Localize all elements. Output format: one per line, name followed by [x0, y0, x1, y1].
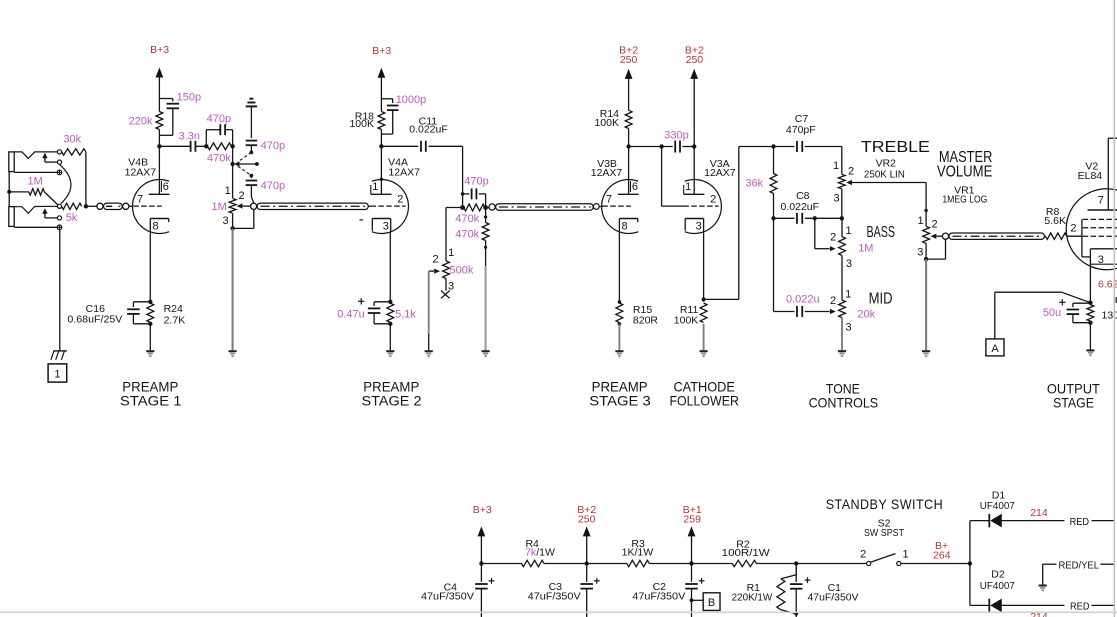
- jack J1 tip contact node: [57, 150, 61, 154]
- wire follower output to tone stack: [704, 298, 739, 300]
- tube V4B 12AX7: [133, 179, 170, 233]
- wire switch to B+ node: [901, 563, 970, 565]
- svg-text:470k: 470k: [455, 213, 479, 225]
- wire C11 down: [462, 146, 464, 207]
- svg-text:5,1k: 5,1k: [395, 308, 416, 320]
- svg-text:TREBLE: TREBLE: [861, 139, 930, 156]
- svg-text:250: 250: [620, 54, 638, 66]
- ground stage1 cathode: [146, 350, 154, 352]
- wire rail 1: [481, 563, 521, 565]
- capacitor 1000p: [381, 98, 392, 100]
- svg-text:47uF/350V: 47uF/350V: [421, 591, 474, 603]
- shielded cable stage1 to stage2: [251, 203, 257, 209]
- resistor 470k series: [208, 143, 232, 150]
- pot 1M wiper arrow: [237, 203, 243, 208]
- svg-text:0.47u: 0.47u: [337, 308, 365, 320]
- svg-text:B+3: B+3: [372, 45, 391, 57]
- capacitor C1 47uF/350V: [795, 564, 797, 583]
- wire RED to edge: [1092, 520, 1115, 522]
- ground VR1: [922, 350, 930, 352]
- wire RED/YEL: [1043, 563, 1057, 565]
- node cathode top: [148, 300, 152, 304]
- svg-text:1000p: 1000p: [396, 94, 427, 106]
- svg-text:CONTROLS: CONTROLS: [809, 395, 879, 411]
- svg-text:SW SPST: SW SPST: [864, 527, 904, 539]
- svg-text:470pF: 470pF: [786, 124, 816, 136]
- svg-text:UF4007: UF4007: [980, 580, 1015, 592]
- node cathode net bottom: [1088, 321, 1092, 325]
- node B+: [968, 561, 972, 565]
- resistor R18 100K: [378, 112, 385, 130]
- switch rotary dashed link lower: [238, 166, 252, 175]
- resistor R1 220K/1W bleeder: [795, 564, 797, 575]
- svg-text:2: 2: [830, 295, 836, 307]
- node R15 top: [618, 300, 622, 304]
- svg-text:1M: 1M: [858, 243, 873, 255]
- svg-text:1: 1: [918, 215, 924, 227]
- resistor 1M (grid leak): [9, 191, 29, 193]
- svg-text:2: 2: [239, 190, 245, 202]
- svg-text:3.3n: 3.3n: [179, 130, 200, 142]
- potentiometer 1M volume: [229, 199, 236, 214]
- wire mid wiper feed: [773, 218, 775, 311]
- capacitor C8 0.022uF: [774, 217, 795, 219]
- capacitor 470p bright lower: [250, 176, 252, 179]
- resistor R11 100K: [700, 303, 707, 323]
- node stage1 plate: [157, 144, 161, 148]
- svg-text:0.022uF: 0.022uF: [409, 123, 448, 135]
- svg-text:150p: 150p: [177, 91, 201, 103]
- wire plate node right: [629, 146, 673, 148]
- wire R15 to ground (gray): [618, 324, 620, 350]
- ground 470k: [482, 350, 490, 352]
- node pot pin3: [230, 226, 234, 230]
- net box 1: [48, 364, 67, 382]
- potentiometer bass 1M: [839, 237, 846, 256]
- wire RED/YEL to edge: [1101, 563, 1115, 565]
- wire to D2: [969, 564, 971, 606]
- svg-text:470p: 470p: [207, 113, 231, 125]
- svg-text:2: 2: [830, 232, 836, 244]
- svg-text:/1W: /1W: [536, 547, 555, 559]
- ground mid pot: [838, 350, 846, 352]
- node 470k in: [460, 205, 465, 210]
- ground bright-cap (inverted): [249, 98, 253, 100]
- wire 30k to mix node: [85, 152, 87, 206]
- resistor R24 2.7K: [147, 303, 154, 322]
- wire rail 5: [692, 563, 733, 565]
- svg-text:100R/1W: 100R/1W: [722, 547, 770, 559]
- wire 470k to ground (gray): [485, 241, 487, 267]
- svg-text:30k: 30k: [63, 134, 81, 146]
- svg-text:2: 2: [860, 548, 866, 560]
- svg-text:3: 3: [917, 247, 923, 259]
- V2 cathode: [1090, 248, 1117, 250]
- V2 pin3 box bottom: [1090, 263, 1117, 265]
- svg-text:RED/YEL: RED/YEL: [1059, 559, 1100, 571]
- V2 plate: [1088, 209, 1117, 211]
- resistor 30k: [62, 149, 86, 155]
- jack J2 sleeve wire: [14, 226, 57, 228]
- node treble bottom: [840, 216, 844, 220]
- svg-text:MID: MID: [869, 291, 893, 308]
- node bright tap: [230, 162, 234, 166]
- ground 500k wiper: [425, 350, 433, 352]
- svg-text:6: 6: [632, 181, 638, 193]
- shielded cable master to output: [942, 233, 948, 239]
- wire to test box A: [1062, 292, 1091, 303]
- jack J1 shunt node: [57, 160, 61, 164]
- V3B grid entry ring: [593, 204, 599, 210]
- svg-text:0.68uF/25V: 0.68uF/25V: [67, 314, 122, 326]
- wire plate to tube V4B: [158, 146, 160, 194]
- wire R11 to ground (gray): [703, 324, 705, 350]
- node 470k out: [230, 144, 234, 148]
- svg-text:1: 1: [685, 181, 691, 193]
- shielded cable stage2 to stage3: [489, 204, 495, 210]
- svg-text:1MEG LOG: 1MEG LOG: [942, 194, 987, 206]
- wire jack sleeve to chassis: [59, 230, 61, 351]
- svg-text:1K/1W: 1K/1W: [622, 547, 654, 559]
- svg-text:470k: 470k: [207, 152, 231, 164]
- resistor R15 820R: [616, 303, 623, 323]
- wire V3A cathode: [703, 232, 705, 302]
- svg-text:1: 1: [833, 160, 839, 172]
- wire V3A grid feed: [661, 147, 663, 207]
- svg-text:UF4007: UF4007: [980, 500, 1015, 512]
- svg-text:1: 1: [903, 548, 909, 560]
- wire treble wiper to master volume: [852, 182, 926, 184]
- resistor R3 1K/1W: [627, 560, 650, 566]
- svg-text:6: 6: [163, 181, 169, 193]
- wire pin3 to cable shield: [926, 258, 945, 260]
- svg-text:STAGE 2: STAGE 2: [362, 392, 422, 408]
- resistor 5k: [62, 203, 82, 209]
- diode D2 UF4007: [988, 599, 990, 612]
- svg-text:250: 250: [578, 514, 596, 526]
- svg-text:VOLUME: VOLUME: [937, 164, 993, 181]
- capacitor C11 0.022uF: [381, 145, 418, 147]
- svg-text:VR2: VR2: [876, 158, 897, 170]
- svg-text:220k: 220k: [129, 115, 153, 127]
- ground R15: [615, 350, 623, 352]
- potentiometer 500k: [443, 261, 450, 279]
- svg-text:12AX7: 12AX7: [704, 167, 736, 179]
- svg-text:2: 2: [931, 219, 937, 231]
- capacitor C3 47uF/350V: [586, 564, 588, 582]
- resistor R14 100K: [625, 110, 632, 128]
- potentiometer mid 20k: [839, 300, 846, 318]
- jack J2 shorting-switch arrow: [44, 213, 46, 218]
- net box B: [692, 599, 704, 601]
- svg-text:3: 3: [1098, 254, 1104, 266]
- tube V3A 12AX7: [685, 179, 722, 233]
- capacitor C16 0.68uF/25V: [133, 301, 150, 303]
- VR1 wiper arrow: [931, 234, 937, 239]
- VR2 wiper arrow: [846, 180, 852, 185]
- switch S2 standby: [867, 561, 871, 565]
- ground V2 cathode: [1086, 349, 1094, 351]
- wire to D1: [969, 521, 971, 564]
- potentiometer VR1 1MEG: [923, 226, 930, 243]
- wire V4B cathode: [149, 232, 151, 302]
- wire V4A cathode: [389, 232, 391, 302]
- node bright lower: [250, 174, 254, 178]
- svg-text:8: 8: [152, 220, 158, 232]
- svg-text:470p: 470p: [261, 140, 285, 152]
- wire 500k wiper to ground: [428, 271, 430, 334]
- V2 g3 tie bracket: [1081, 219, 1083, 257]
- wire V2 cathode down: [1089, 249, 1091, 303]
- node cathode net top: [1088, 301, 1092, 305]
- node 36k bottom: [771, 216, 775, 220]
- svg-text:1: 1: [225, 185, 231, 197]
- node stage3 plate: [626, 144, 630, 148]
- svg-text:B+3: B+3: [473, 504, 492, 516]
- V2 grid g1 dashed: [1067, 235, 1083, 237]
- svg-text:470p: 470p: [464, 176, 488, 188]
- node stage2 plate: [379, 144, 383, 148]
- capacitor 150p: [159, 98, 172, 100]
- svg-text:47uF/350V: 47uF/350V: [528, 591, 581, 603]
- resistor R4 7k/1W: [522, 560, 545, 566]
- svg-text:2.7K: 2.7K: [164, 314, 186, 326]
- ground volume pot: [229, 350, 237, 352]
- svg-text:2: 2: [1070, 223, 1076, 235]
- node VR1 pin3: [924, 257, 928, 261]
- svg-text:259: 259: [683, 514, 701, 526]
- wire plate to V3A: [693, 147, 695, 195]
- resistor R8 5.6K grid stopper: [1045, 233, 1066, 239]
- svg-text:470k: 470k: [455, 229, 479, 241]
- switch wiper arrow: [234, 162, 240, 167]
- wire pot pin3: [232, 213, 234, 228]
- svg-text:2: 2: [710, 194, 716, 206]
- resistor 470k to ground: [485, 208, 487, 223]
- svg-text:1: 1: [54, 369, 60, 381]
- svg-text:B+3: B+3: [150, 44, 169, 56]
- svg-text:0.022u: 0.022u: [786, 293, 820, 305]
- switch rotary dashed link upper: [238, 152, 252, 162]
- window border bottom: [0, 611, 1117, 613]
- wire D2 to RED: [1002, 604, 1065, 606]
- node V4A circle top: [380, 178, 383, 181]
- svg-text:1: 1: [845, 289, 851, 301]
- svg-text:3: 3: [696, 220, 702, 232]
- window border right: [1113, 0, 1115, 617]
- svg-text:3: 3: [383, 220, 389, 232]
- no-connect X: [441, 291, 450, 299]
- input jack J2 (bottom): [9, 207, 14, 227]
- svg-text:2: 2: [397, 194, 403, 206]
- wire 5.1k to ground: [389, 324, 391, 351]
- svg-text:STAGE: STAGE: [1053, 395, 1094, 411]
- svg-text:2: 2: [848, 166, 854, 178]
- svg-text:250K LIN: 250K LIN: [864, 169, 905, 181]
- stray cut label tick: [1115, 297, 1117, 303]
- resistor 220k plate: [156, 112, 163, 130]
- capacitor 0.47u cathode: [374, 301, 390, 303]
- svg-text:1M: 1M: [28, 175, 43, 187]
- jack J1 sleeve wire: [14, 171, 57, 173]
- mid wiper arrow: [830, 309, 836, 314]
- wire bright ground feed: [250, 107, 252, 139]
- resistor R2 100R/1W: [732, 560, 756, 566]
- jack J2 tip node: [57, 204, 61, 208]
- svg-text:STAGE 1: STAGE 1: [120, 392, 182, 408]
- diode D1 UF4007: [988, 514, 990, 527]
- svg-text:12AX7: 12AX7: [388, 167, 420, 179]
- svg-text:47uF/350V: 47uF/350V: [632, 591, 685, 603]
- plus mark 50u: [1059, 301, 1065, 303]
- svg-text:500k: 500k: [450, 264, 474, 276]
- svg-text:250: 250: [686, 54, 704, 66]
- capacitor 470p bright upper: [246, 140, 258, 142]
- wire RED/YEL to ground: [1042, 564, 1044, 585]
- wire V3B cathode: [618, 232, 620, 302]
- wire rail 6: [756, 563, 866, 565]
- input jack J1 (top): [9, 152, 14, 172]
- stray tick: [360, 219, 364, 221]
- svg-text:100K: 100K: [674, 315, 699, 327]
- wire plate to V3B: [628, 147, 630, 195]
- V2 grid g3 dashed: [1083, 218, 1117, 220]
- node cathode2 bottom: [388, 322, 392, 326]
- node grid feed V3A: [659, 144, 663, 148]
- svg-text:264: 264: [933, 550, 951, 562]
- shielded cable stage1 input: [97, 203, 103, 209]
- svg-text:1: 1: [372, 181, 378, 193]
- jack J1 shorting-switch arrow: [44, 158, 46, 162]
- svg-text:0.022uF: 0.022uF: [781, 201, 820, 213]
- ground RED/YEL centre tap: [1039, 585, 1047, 587]
- ground R11: [700, 350, 708, 352]
- svg-text:50u: 50u: [1043, 307, 1061, 319]
- svg-text:C8: C8: [796, 190, 810, 202]
- wire switched-contact arc: [60, 164, 71, 203]
- svg-text:5k: 5k: [66, 212, 78, 224]
- svg-text:RED: RED: [1070, 600, 1090, 612]
- tube V4A 12AX7: [372, 180, 409, 234]
- node follower output: [702, 297, 706, 301]
- wire rail 4: [649, 563, 691, 565]
- wire bass to mid: [841, 218, 843, 236]
- wire RED lower to edge: [1092, 604, 1115, 606]
- svg-text:A: A: [991, 343, 999, 355]
- capacitor 470p stage2: [463, 193, 470, 195]
- wire to 500k pot: [445, 208, 447, 261]
- capacitor 50u cathode bypass: [1073, 302, 1091, 304]
- svg-text:5.6K: 5.6K: [1044, 215, 1066, 227]
- svg-text:214: 214: [1030, 507, 1048, 519]
- svg-text:3: 3: [846, 322, 852, 334]
- wire ground bus left: [8, 172, 10, 207]
- resistor 130R cathode: [1087, 305, 1094, 322]
- node 470k out stage2: [483, 205, 488, 210]
- svg-text:12AX7: 12AX7: [591, 167, 623, 179]
- node box B tap: [690, 598, 694, 602]
- jack J2 shunt node: [57, 216, 61, 220]
- potentiometer VR2 treble: [841, 147, 843, 175]
- node 470k vertical top: [484, 215, 487, 218]
- wire pin3 stub: [445, 278, 447, 290]
- svg-text:STANDBY SWITCH: STANDBY SWITCH: [826, 496, 943, 512]
- svg-text:D2: D2: [991, 569, 1005, 581]
- resistor 36k slope: [773, 147, 775, 174]
- svg-text:20k: 20k: [857, 308, 875, 320]
- node switch open position: [255, 162, 259, 166]
- svg-text:EL84: EL84: [1078, 170, 1103, 182]
- pot 500k wiper arrow: [434, 269, 440, 274]
- V2 grid g2 dashed: [1083, 227, 1117, 229]
- node cathode bottom: [148, 322, 152, 326]
- svg-text:36k: 36k: [745, 178, 763, 190]
- svg-text:FOLLOWER: FOLLOWER: [669, 392, 739, 408]
- svg-text:820R: 820R: [633, 315, 659, 327]
- node R15 bottom: [618, 322, 622, 326]
- wire to ground: [1089, 323, 1091, 350]
- svg-text:BASS: BASS: [867, 224, 896, 241]
- wire VR1 to ground (gray): [925, 259, 927, 350]
- svg-text:RED: RED: [1070, 516, 1090, 528]
- wire rail 2: [544, 563, 587, 565]
- svg-text:7: 7: [137, 194, 143, 206]
- node bright upper: [250, 151, 254, 155]
- resistor 470k horizontal: [464, 204, 485, 211]
- resistor 5.1k cathode: [387, 303, 394, 322]
- wire mid to ground (gray): [841, 318, 843, 351]
- plus mark 0.47u: [358, 300, 364, 302]
- capacitor 3.3n coupling: [159, 145, 190, 147]
- node 3.3n out: [204, 144, 208, 148]
- svg-text:330p: 330p: [664, 130, 688, 142]
- svg-text:8: 8: [622, 220, 628, 232]
- wire D1 to RED: [1002, 520, 1065, 522]
- jack J1 sleeve node: [57, 170, 62, 175]
- wire rail 3: [587, 563, 627, 565]
- svg-text:STAGE 3: STAGE 3: [589, 392, 651, 408]
- svg-text:100K: 100K: [594, 117, 619, 129]
- wire VR1 pin3: [925, 243, 927, 259]
- ground stage2 cathode: [386, 350, 394, 352]
- capacitor 0.022u mid: [796, 306, 798, 317]
- svg-text:47uF/350V: 47uF/350V: [808, 591, 859, 603]
- node follower plate: [692, 144, 696, 148]
- net box A: [986, 339, 1004, 356]
- svg-text:1M: 1M: [212, 201, 227, 213]
- node 1M tap: [7, 190, 11, 194]
- wire plate to tube V4A: [380, 146, 382, 194]
- node mixer junction: [84, 204, 88, 208]
- wire branch to 500k: [446, 207, 463, 209]
- svg-text:220K/1W: 220K/1W: [732, 591, 773, 603]
- svg-text:1: 1: [448, 247, 454, 259]
- wire bass wiper feed: [814, 218, 816, 248]
- chassis ground: [53, 350, 67, 352]
- node tone top: [771, 144, 775, 148]
- wire R24 to ground: [149, 324, 151, 351]
- svg-text:3: 3: [846, 258, 852, 270]
- node cathode2 top: [388, 300, 392, 304]
- svg-text:12AX7: 12AX7: [125, 167, 157, 179]
- bass wiper arrow: [830, 246, 836, 251]
- svg-text:7: 7: [606, 194, 612, 206]
- svg-text:2: 2: [433, 253, 439, 265]
- svg-text:470p: 470p: [261, 180, 285, 192]
- svg-text:B: B: [708, 597, 715, 609]
- svg-text:3: 3: [833, 192, 839, 204]
- node R1 bottom: [794, 612, 798, 616]
